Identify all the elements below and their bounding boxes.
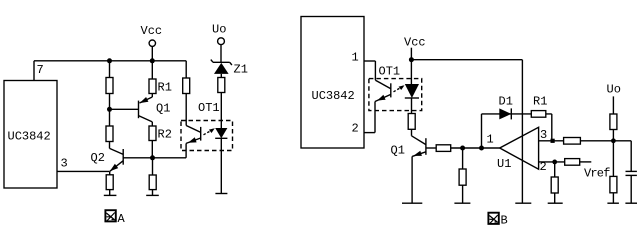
resistor Q1 base series (B)	[436, 145, 451, 152]
resistor pin2 pulldown (B)	[551, 177, 558, 193]
svg-text:OT1: OT1	[198, 101, 220, 115]
resistor LED chain (B)	[408, 114, 415, 130]
wire cap to ground	[630, 176, 632, 204]
wire R1 down to output node	[551, 114, 553, 141]
transistor Q2 (NPN mirrored)	[91, 148, 153, 171]
wire zener to resistor	[220, 74, 222, 128]
resistor below R2 node	[149, 175, 156, 190]
resistor Q2 emitter (A)	[106, 175, 113, 190]
wire R1 chain vertical	[151, 61, 153, 97]
resistor Uo pulldown (B)	[610, 176, 617, 192]
ground Q1 emitter (B)	[402, 202, 422, 204]
pin 3 label	[61, 157, 68, 171]
wire output to Uo node	[580, 140, 631, 142]
ground below R2 node	[146, 194, 159, 196]
wire left rail A	[109, 61, 111, 149]
wire top rail A	[34, 60, 186, 62]
node Q2 base junction	[150, 155, 155, 160]
svg-text:R2: R2	[158, 128, 172, 142]
node Vcc junction (B)	[409, 57, 414, 62]
resistor Uo upper (B)	[610, 114, 617, 130]
wire Q1 base	[110, 108, 139, 110]
svg-text:3: 3	[61, 157, 68, 171]
node Uo junction	[611, 138, 616, 143]
wire pin3 output	[539, 140, 564, 142]
Uo terminal (A)	[212, 23, 226, 63]
caption 图A	[105, 210, 125, 226]
transistor Q1 (PNP)	[139, 97, 171, 122]
svg-text:2: 2	[352, 122, 359, 136]
phototransistor OT1 (A)	[186, 126, 201, 144]
svg-text:Q1: Q1	[391, 144, 405, 158]
wire Vcc to LED (B)	[410, 60, 412, 84]
Uo terminal (B)	[607, 83, 621, 141]
wire phototransistor emitter down (A)	[185, 143, 187, 157]
optocoupler OT1 (A) dashed box	[181, 121, 233, 151]
phototransistor OT1 (B)	[375, 80, 391, 101]
wire right rail A down to optocoupler	[185, 61, 187, 126]
wire feedback vertical	[481, 114, 483, 148]
svg-text:3: 3	[540, 128, 547, 142]
svg-text:Q2: Q2	[91, 151, 105, 165]
optocoupler OT1 (A) label	[198, 101, 220, 115]
resistor Vref series (B)	[565, 159, 580, 166]
ground Uo pulldown (B)	[607, 202, 619, 204]
svg-text:Uo: Uo	[607, 83, 621, 97]
resistor output series (B)	[564, 138, 581, 145]
resistor mid-left (A)	[106, 126, 113, 142]
svg-text:Q1: Q1	[156, 102, 170, 116]
ground Q2 emitter	[104, 194, 117, 196]
svg-text:B: B	[501, 214, 508, 228]
pin 1 label	[352, 51, 359, 65]
svg-text:UC3842: UC3842	[8, 130, 51, 144]
zener Z1	[211, 60, 248, 77]
resistor R1 (B)	[531, 95, 547, 118]
node input pulldown	[460, 146, 465, 151]
ground capacitor	[625, 202, 637, 204]
pin 7 label	[37, 63, 44, 77]
wire U1 supply vertical	[521, 60, 523, 203]
pin 2 label	[352, 122, 359, 136]
svg-text:Vref: Vref	[584, 167, 610, 181]
capacitor C1	[626, 171, 637, 175]
wire LED to resistor (B)	[411, 98, 413, 136]
LED of OT1 (B)	[405, 84, 419, 98]
svg-text:Uo: Uo	[212, 23, 226, 37]
svg-text:R1: R1	[158, 81, 172, 95]
wire Q2 base to optocoupler emitter	[153, 157, 187, 159]
svg-text:1: 1	[352, 51, 359, 65]
wire pin1 down to phototransistor	[374, 61, 376, 80]
ground LED (A)	[215, 193, 227, 195]
wire top rail B	[411, 59, 522, 61]
IC UC3842 (A)	[4, 81, 57, 189]
wire pin2	[364, 132, 375, 134]
svg-text:U1: U1	[497, 157, 511, 171]
svg-text:OT1: OT1	[379, 65, 401, 79]
wire pin2 of U1	[539, 161, 565, 163]
light arrow OT1 (A)	[204, 128, 215, 135]
node output junction	[551, 139, 555, 143]
resistor input pulldown (B)	[459, 169, 466, 185]
node junction top-left rail	[107, 58, 112, 63]
node Q1 base junction	[107, 107, 112, 112]
wire input line to U1	[451, 147, 500, 149]
Vref label	[584, 167, 610, 181]
transistor Q1 (B, NPN mirrored)	[391, 136, 437, 158]
caption 图B	[488, 213, 507, 228]
resistor R1	[149, 79, 172, 95]
Vcc terminal (A)	[141, 24, 163, 61]
svg-text:A: A	[118, 212, 126, 226]
svg-text:7: 7	[37, 63, 44, 77]
svg-text:R1: R1	[533, 95, 547, 109]
Vcc terminal (B)	[404, 36, 426, 60]
wire to Vref	[580, 161, 592, 163]
wire input pulldown down	[462, 148, 464, 203]
svg-text:Z1: Z1	[234, 63, 248, 77]
ground U1 supply	[515, 202, 531, 204]
svg-text:UC3842: UC3842	[312, 89, 355, 103]
resistor R2	[149, 126, 172, 142]
optocoupler OT1 (B) label	[379, 65, 401, 79]
svg-text:Vcc: Vcc	[404, 36, 426, 50]
wire phototransistor emitter to pin2	[374, 102, 376, 133]
op-amp U1	[487, 127, 548, 174]
wire feedback horizontal D1 R1	[482, 113, 552, 115]
LED of OT1 (A)	[215, 128, 227, 138]
node feedback junction	[479, 146, 484, 151]
wire pin3	[57, 170, 110, 172]
wire Q1 collector to R2	[151, 122, 153, 158]
resistor LED chain (A)	[218, 78, 225, 93]
light arrow OT1 (B)	[394, 85, 405, 92]
wire pin7 vertical	[33, 61, 35, 81]
node junction top Vcc	[150, 58, 155, 63]
ground input pulldown (B)	[454, 202, 470, 204]
wire pin1	[364, 60, 375, 62]
resistor upper-left (A)	[106, 78, 113, 94]
wire R2 node down	[152, 158, 154, 196]
wire Uo node pulldown	[612, 141, 614, 203]
diode D1	[499, 95, 513, 120]
resistor right rail (A)	[183, 78, 190, 94]
wire Q1 emitter down	[411, 156, 413, 203]
ground pin2 pulldown (B)	[548, 202, 563, 204]
node pin2 junction	[552, 160, 557, 165]
svg-text:Vcc: Vcc	[141, 24, 163, 38]
svg-text:1: 1	[487, 133, 494, 147]
wire LED down (A)	[220, 138, 222, 193]
wire pin2 pulldown	[554, 162, 556, 203]
optocoupler OT1 (B) dashed box	[369, 79, 422, 111]
svg-text:D1: D1	[499, 95, 513, 109]
wire cap branch	[630, 141, 632, 171]
IC UC3842 (B)	[301, 17, 364, 149]
wire emitter node down	[109, 171, 111, 195]
